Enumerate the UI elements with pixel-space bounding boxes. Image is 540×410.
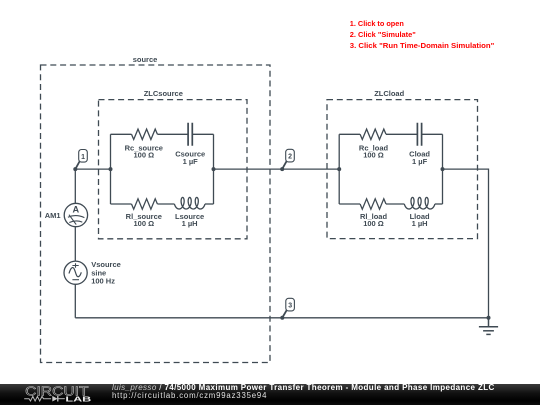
wire ZLCsource left vertical	[110, 134, 112, 204]
footer title	[112, 383, 495, 392]
wire Rc_load to Cload	[386, 133, 417, 135]
svg-text:2. Click "Simulate": 2. Click "Simulate"	[350, 30, 416, 39]
junction ZLCload right	[441, 167, 445, 171]
svg-text:source: source	[133, 55, 158, 64]
ammeter AM1	[64, 203, 87, 226]
inductor Lsource	[174, 197, 205, 209]
wire ZLCsource top-left segment	[111, 133, 132, 135]
ZLCload enclosure box	[327, 100, 478, 239]
svg-text:2: 2	[288, 154, 292, 161]
capacitor Csource	[188, 123, 192, 146]
annotation red instructions	[350, 19, 495, 50]
wire ZLCsource right vertical	[213, 134, 215, 204]
logo CircuitLab	[0, 384, 110, 405]
junction ZLCsource left	[109, 167, 113, 171]
node 3 junction	[280, 316, 284, 320]
ZLCsource enclosure box	[99, 100, 248, 239]
wire ZLCload left vertical	[338, 134, 340, 204]
wire bottom return rail	[75, 317, 488, 319]
wire ZLCload top-left segment	[339, 133, 360, 135]
resistor Rl_source	[132, 199, 158, 209]
footer bar	[0, 384, 540, 405]
svg-text:1: 1	[81, 154, 85, 161]
junction ZLCsource right	[212, 167, 216, 171]
svg-text:3: 3	[288, 303, 292, 310]
wire Rl_load to Lload	[386, 203, 404, 205]
voltage source Vsource	[64, 261, 87, 284]
wire Vsource to bottom rail	[74, 284, 76, 318]
wire node1 down to AM1	[74, 169, 76, 203]
svg-text:100 Hz: 100 Hz	[91, 277, 115, 286]
junction ground	[487, 316, 491, 320]
node 2 junction	[280, 167, 284, 171]
wire AM1 to Vsource	[74, 227, 76, 261]
wire Lload to corner	[435, 203, 443, 205]
node 1 tag	[76, 150, 88, 169]
wire ZLCsource to ZLCload (node 2)	[214, 168, 340, 170]
wire Rl_source to Lsource	[157, 203, 174, 205]
inductor Lload	[404, 197, 435, 209]
node 1 junction	[73, 167, 77, 171]
wire ZLCload to right corner	[443, 169, 489, 318]
svg-text:3. Click "Run Time-Domain Simu: 3. Click "Run Time-Domain Simulation"	[350, 41, 495, 50]
resistor Rc_source	[132, 129, 158, 139]
svg-text:100 Ω: 100 Ω	[363, 219, 384, 228]
svg-text:100 Ω: 100 Ω	[133, 151, 154, 160]
wire ZLCsource bottom-left segment	[111, 203, 132, 205]
svg-text:ZLCload: ZLCload	[374, 89, 404, 98]
source enclosure box	[41, 65, 271, 363]
node 2 tag	[282, 149, 294, 169]
svg-text:1 µH: 1 µH	[412, 219, 428, 228]
svg-text:ZLCsource: ZLCsource	[144, 89, 183, 98]
wire Cload to corner	[422, 133, 443, 135]
wire ZLCload right vertical	[442, 134, 444, 204]
wire Rc_source to Csource	[157, 133, 188, 135]
svg-text:1 µF: 1 µF	[183, 157, 199, 166]
node 3 tag	[282, 298, 294, 317]
resistor Rc_load	[360, 129, 386, 139]
wire Csource to corner	[192, 133, 213, 135]
resistor Rl_load	[360, 199, 386, 209]
wire Lsource to corner	[205, 203, 214, 205]
svg-text:LAB: LAB	[65, 395, 92, 404]
svg-text:1 µF: 1 µF	[412, 157, 428, 166]
svg-text:A: A	[72, 204, 79, 214]
capacitor Cload	[417, 123, 421, 146]
wire node1 to ZLCsource	[75, 168, 110, 170]
svg-text:1 µH: 1 µH	[182, 219, 198, 228]
svg-text:100 Ω: 100 Ω	[363, 151, 384, 160]
wire ZLCload bottom-left segment	[339, 203, 360, 205]
junction ZLCload left	[337, 167, 341, 171]
svg-text:1. Click to open: 1. Click to open	[350, 19, 404, 28]
svg-text:100 Ω: 100 Ω	[133, 219, 154, 228]
ground	[479, 318, 498, 335]
footer url	[112, 391, 267, 400]
svg-text:AM1: AM1	[45, 211, 61, 220]
